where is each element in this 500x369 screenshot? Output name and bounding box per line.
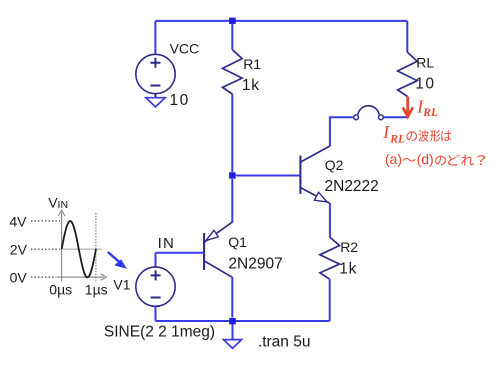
svg-text:0µs: 0µs [49,281,72,297]
svg-text:RL: RL [422,107,438,119]
node bottom junction [229,318,236,324]
svg-text:VCC: VCC [170,41,200,57]
current probe loop [354,106,384,120]
blue annotation arrow to V1 [108,252,122,264]
transistor Q2 2N2222 (npn) [300,146,330,203]
node base junction [229,172,236,178]
svg-text:RL: RL [389,134,405,146]
svg-text:Q2: Q2 [325,157,344,173]
wire top rail [155,20,407,22]
svg-text:V1: V1 [113,276,130,292]
inset graph: y axis [57,210,107,282]
wire Q1 emitter up to base node [231,179,233,223]
svg-text:10: 10 [415,76,435,93]
dotted vertical 1us [95,213,97,281]
svg-text:.tran 5u: .tran 5u [258,333,311,350]
red current arrow IRL [406,97,409,116]
red wave dash [403,158,416,162]
wire VCC top stub [154,21,156,55]
sine waveform [62,221,96,277]
svg-text:1k: 1k [242,77,260,94]
red text do [448,154,460,165]
inset graph: 2V level line [62,248,102,250]
svg-text:4V: 4V [9,213,27,229]
svg-text:1µs: 1µs [85,281,108,297]
svg-text:1k: 1k [339,260,357,277]
dotted leader 2V [31,248,60,250]
voltage source V1 [155,253,157,267]
red text no 2 [435,156,446,166]
transistor Q1 2N2907 (pnp) [204,222,232,277]
red text no [406,131,416,141]
voltage source VCC [136,54,175,97]
svg-text:Q1: Q1 [228,234,247,250]
dotted leader 4V [31,220,60,222]
resistor RL [406,21,408,52]
svg-text:2N2222: 2N2222 [325,178,379,195]
wire probe to RL bottom [384,116,408,118]
wire Q2 emitter down to R2 [329,203,331,237]
wire Q2 collector up to probe [330,117,354,146]
svg-text:2V: 2V [10,242,28,258]
wire V1 bottom to rail [155,306,157,321]
inset graph: x axis [57,276,104,278]
red text question [477,155,485,165]
red text wa [441,131,451,141]
svg-text:0V: 0V [10,269,28,285]
wire Q1 collector down to bottom rail [231,277,233,318]
svg-text:2N2907: 2N2907 [228,256,282,273]
svg-text:(a): (a) [385,151,402,167]
node junction top rail / R1 [229,18,236,24]
red text ha(wave) [418,130,428,142]
ground (VCC) [146,98,165,107]
resistor R1 [231,24,233,50]
resistor R2 [320,237,340,279]
wire IN (V1 to Q1 base) [156,252,205,254]
wire base of Q2 [236,175,300,177]
svg-text:IN: IN [158,235,175,252]
wire bottom rail [156,320,330,322]
svg-text:R2: R2 [340,239,358,255]
red text re [461,155,474,166]
svg-text:SINE(2 2 1meg): SINE(2 2 1meg) [104,323,215,340]
svg-text:I: I [382,122,390,142]
red text kei(form) [430,130,440,142]
ground (bottom) [232,324,234,339]
svg-text:R1: R1 [243,56,261,72]
svg-text:RL: RL [416,54,434,70]
svg-text:10: 10 [170,92,190,109]
dotted leader 0V [31,276,56,278]
svg-text:(d): (d) [417,151,434,167]
